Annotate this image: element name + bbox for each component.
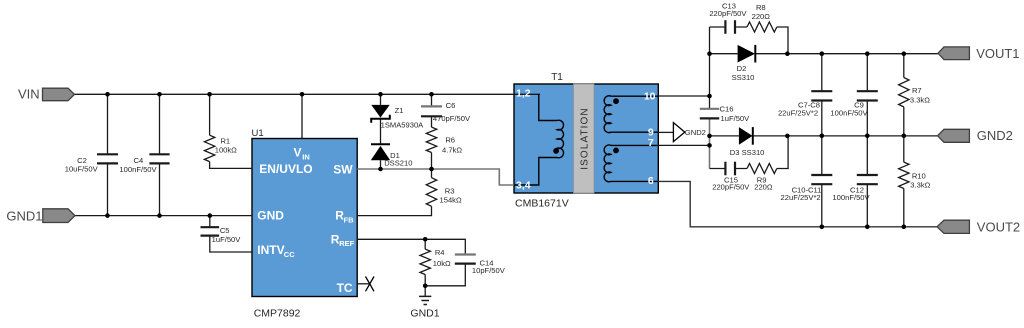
svg-text:1uF/50V: 1uF/50V: [721, 114, 751, 123]
svg-text:100nF/50V: 100nF/50V: [830, 109, 868, 118]
svg-text:CC: CC: [284, 250, 295, 259]
svg-text:R4: R4: [435, 248, 445, 257]
svg-text:GND1: GND1: [410, 308, 439, 320]
svg-text:1SMA5930A: 1SMA5930A: [381, 121, 425, 130]
svg-text:100nF/50V: 100nF/50V: [832, 193, 870, 202]
svg-text:IN: IN: [302, 152, 310, 161]
svg-text:GND2: GND2: [977, 128, 1013, 143]
svg-text:GND1: GND1: [6, 209, 42, 224]
svg-text:TC: TC: [337, 281, 353, 295]
svg-text:C4: C4: [134, 156, 144, 165]
svg-text:3.3kΩ: 3.3kΩ: [910, 180, 930, 189]
svg-text:220Ω: 220Ω: [752, 12, 771, 21]
svg-text:DSS210: DSS210: [384, 158, 412, 167]
svg-text:22uF/25V*2: 22uF/25V*2: [778, 109, 818, 118]
svg-text:10uF/50V: 10uF/50V: [65, 165, 99, 174]
svg-text:SW: SW: [333, 162, 353, 176]
svg-text:4.7kΩ: 4.7kΩ: [442, 145, 462, 154]
svg-text:C16: C16: [720, 105, 734, 114]
svg-text:V: V: [294, 145, 302, 159]
svg-text:1,2: 1,2: [516, 88, 531, 100]
svg-text:T1: T1: [551, 72, 563, 83]
svg-text:VOUT2: VOUT2: [977, 219, 1020, 234]
svg-text:ISOLATION: ISOLATION: [579, 107, 590, 170]
svg-text:3,4: 3,4: [516, 180, 531, 192]
svg-text:C5: C5: [220, 226, 230, 235]
svg-text:100nF/50V: 100nF/50V: [119, 165, 157, 174]
svg-text:10: 10: [644, 91, 656, 103]
svg-text:VOUT1: VOUT1: [976, 46, 1019, 61]
svg-text:220Ω: 220Ω: [754, 183, 773, 192]
svg-text:D3 SS310: D3 SS310: [730, 148, 765, 157]
svg-text:Z1: Z1: [395, 106, 404, 115]
svg-text:R3: R3: [445, 187, 455, 196]
svg-text:GND2: GND2: [685, 128, 706, 137]
svg-text:R1: R1: [220, 136, 230, 145]
svg-text:CMB1671V: CMB1671V: [515, 198, 569, 210]
svg-text:R10: R10: [912, 171, 926, 180]
svg-text:220pF/50V: 220pF/50V: [712, 183, 750, 192]
svg-text:R7: R7: [912, 86, 922, 95]
svg-text:10pF/50V: 10pF/50V: [472, 266, 506, 275]
svg-text:220pF/50V: 220pF/50V: [709, 9, 747, 18]
svg-text:SS310: SS310: [732, 73, 755, 82]
svg-text:100kΩ: 100kΩ: [215, 145, 237, 154]
svg-text:D2: D2: [737, 64, 747, 73]
svg-text:FB: FB: [344, 215, 355, 224]
svg-text:10kΩ: 10kΩ: [433, 259, 451, 268]
svg-text:7: 7: [648, 137, 654, 149]
svg-text:470pF/50V: 470pF/50V: [433, 114, 471, 123]
svg-text:INTV: INTV: [257, 243, 284, 257]
svg-text:EN/UVLO: EN/UVLO: [259, 162, 312, 176]
svg-text:REF: REF: [339, 239, 354, 248]
svg-text:VIN: VIN: [18, 87, 40, 102]
svg-text:U1: U1: [252, 128, 264, 139]
svg-text:22uF/25V*2: 22uF/25V*2: [781, 193, 821, 202]
svg-text:C6: C6: [446, 101, 456, 110]
svg-text:3.3kΩ: 3.3kΩ: [910, 95, 930, 104]
svg-text:C2: C2: [77, 156, 87, 165]
svg-text:R8: R8: [756, 3, 766, 12]
svg-text:CMP7892: CMP7892: [254, 308, 301, 320]
svg-text:R6: R6: [445, 136, 455, 145]
svg-text:6: 6: [648, 175, 654, 187]
svg-text:1uF/50V: 1uF/50V: [212, 235, 242, 244]
svg-text:154kΩ: 154kΩ: [440, 196, 462, 205]
svg-text:GND: GND: [257, 209, 284, 223]
